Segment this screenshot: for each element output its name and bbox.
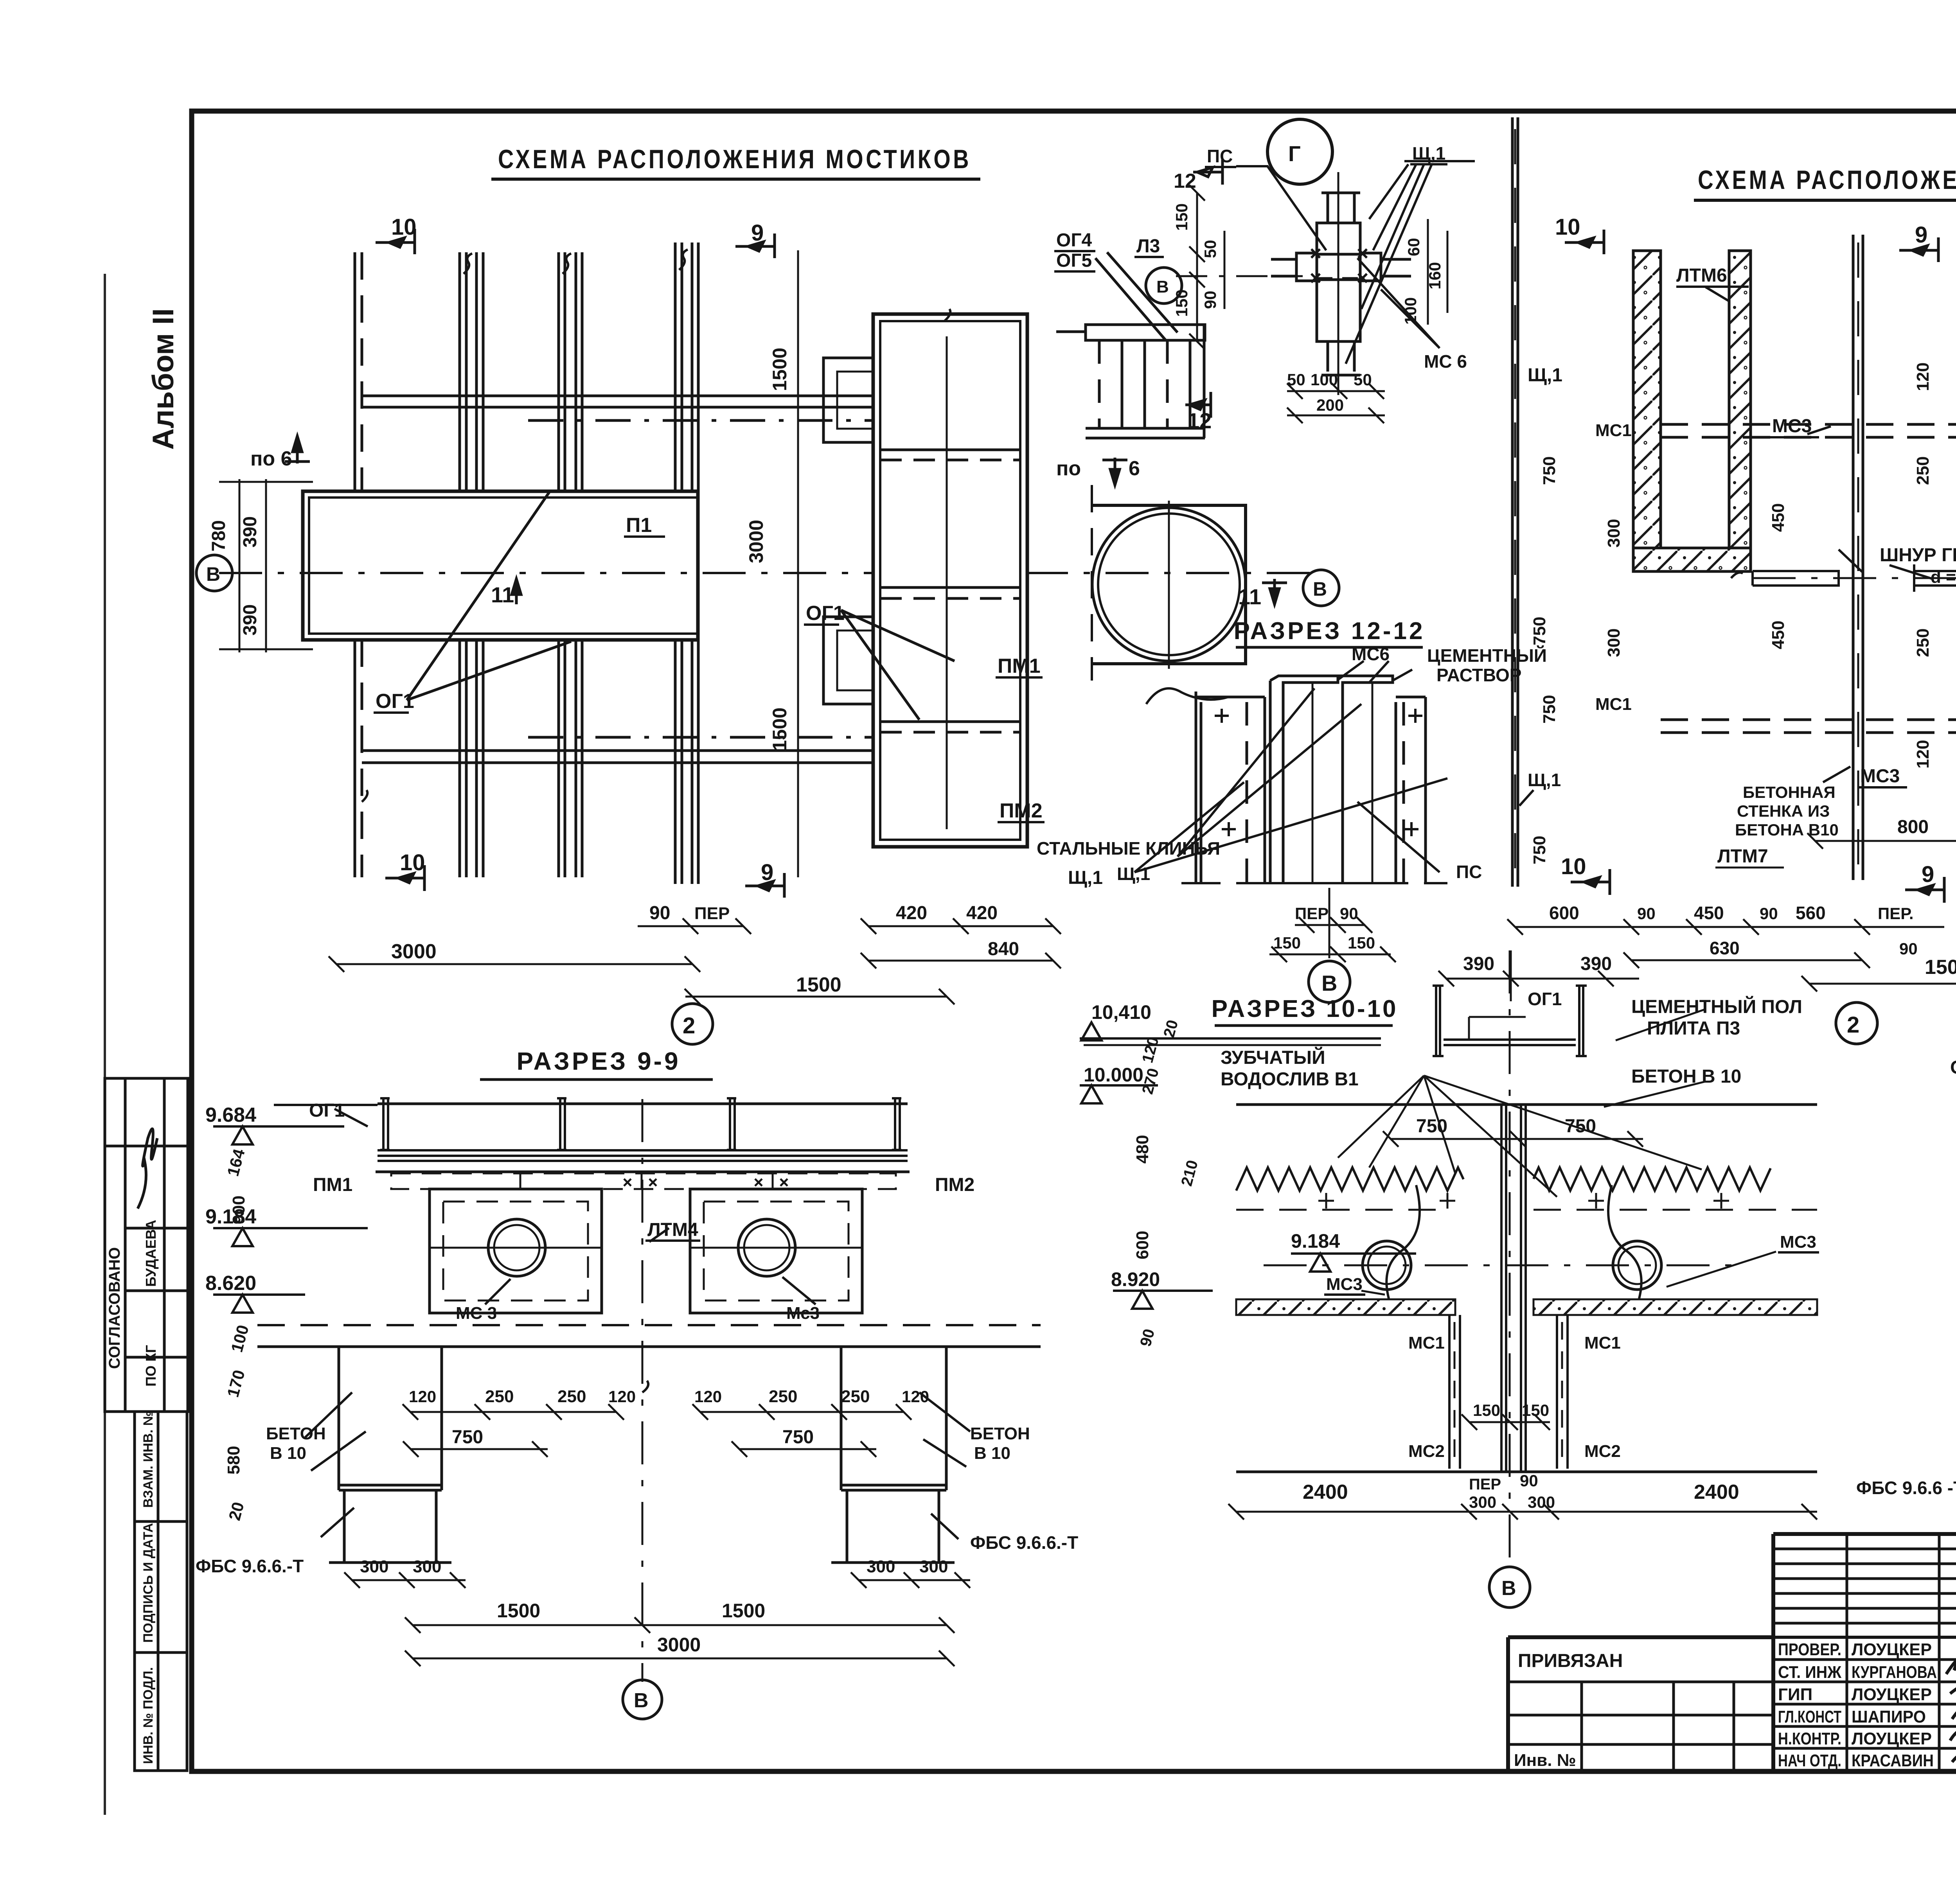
svg-text:ПМ2: ПМ2 — [1000, 799, 1043, 822]
svg-text:ФБС 9.6.6.-Т: ФБС 9.6.6.-Т — [196, 1556, 304, 1576]
svg-text:3000: 3000 — [391, 940, 437, 963]
svg-text:1500: 1500 — [769, 708, 791, 751]
svg-text:РАЗРЕЗ 12-12: РАЗРЕЗ 12-12 — [1234, 618, 1425, 645]
svg-text:2: 2 — [1847, 1012, 1859, 1038]
svg-text:120: 120 — [608, 1387, 636, 1406]
svg-text:ПЕР: ПЕР — [1295, 904, 1329, 923]
svg-text:300: 300 — [1604, 629, 1623, 657]
svg-text:450: 450 — [1694, 903, 1724, 923]
svg-text:90: 90 — [649, 903, 670, 923]
svg-text:ПЕР: ПЕР — [694, 904, 730, 923]
svg-text:3000: 3000 — [657, 1634, 701, 1656]
svg-text:150: 150 — [1473, 1401, 1500, 1419]
svg-text:630: 630 — [1710, 938, 1740, 958]
svg-text:ШНУР ГЕРНИТА: ШНУР ГЕРНИТА — [1880, 545, 1956, 566]
svg-text:10: 10 — [1555, 214, 1580, 240]
svg-text:390: 390 — [1463, 954, 1494, 974]
svg-text:Щ,1: Щ,1 — [1528, 365, 1562, 386]
svg-text:160: 160 — [1426, 262, 1444, 289]
svg-text:НАЧ ОТД.: НАЧ ОТД. — [1778, 1751, 1841, 1770]
svg-text:3000: 3000 — [745, 520, 767, 563]
svg-text:ФБС 9.6.6.-Т: ФБС 9.6.6.-Т — [970, 1532, 1078, 1553]
svg-text:90: 90 — [1637, 904, 1656, 923]
svg-text:БЕТОНА В10: БЕТОНА В10 — [1735, 821, 1839, 839]
svg-text:250: 250 — [1913, 629, 1933, 657]
svg-text:300: 300 — [867, 1557, 895, 1576]
svg-text:120: 120 — [902, 1387, 929, 1406]
svg-text:750: 750 — [1416, 1116, 1447, 1137]
svg-text:150: 150 — [1172, 289, 1191, 317]
svg-text:2400: 2400 — [1303, 1481, 1348, 1503]
svg-text:ОГ1: ОГ1 — [376, 690, 414, 713]
svg-text:580: 580 — [224, 1446, 243, 1475]
svg-text:ЛОУЦКЕР: ЛОУЦКЕР — [1852, 1729, 1932, 1748]
svg-text:ШАПИРО: ШАПИРО — [1852, 1707, 1926, 1726]
svg-text:Н.КОНТР.: Н.КОНТР. — [1778, 1729, 1841, 1748]
svg-text:СТЕНКА ИЗ: СТЕНКА ИЗ — [1737, 802, 1830, 820]
svg-text:90: 90 — [1760, 904, 1778, 923]
svg-text:1500: 1500 — [1925, 956, 1956, 979]
svg-text:МС 3: МС 3 — [456, 1304, 497, 1323]
svg-text:по: по — [1056, 457, 1081, 480]
svg-text:300: 300 — [413, 1557, 441, 1576]
svg-text:МС6: МС6 — [1352, 644, 1390, 664]
svg-text:МС3: МС3 — [1860, 766, 1900, 787]
svg-text:9.184: 9.184 — [205, 1205, 256, 1228]
svg-text:ЛТМ4: ЛТМ4 — [647, 1220, 698, 1240]
svg-text:300: 300 — [360, 1557, 388, 1576]
svg-text:50: 50 — [1354, 370, 1372, 389]
svg-text:750: 750 — [1530, 836, 1549, 864]
svg-text:ПОДПИСЬ И ДАТА: ПОДПИСЬ И ДАТА — [141, 1523, 156, 1643]
svg-text:750: 750 — [1540, 456, 1559, 485]
svg-text:ВЗАМ. ИНВ. №: ВЗАМ. ИНВ. № — [141, 1411, 156, 1508]
svg-text:ПС: ПС — [1456, 862, 1482, 882]
svg-text:В: В — [1501, 1577, 1516, 1600]
svg-text:150: 150 — [1348, 934, 1375, 952]
svg-text:750: 750 — [452, 1427, 483, 1448]
svg-text:П1: П1 — [626, 514, 652, 537]
svg-text:120: 120 — [1913, 740, 1933, 769]
svg-text:800: 800 — [1897, 817, 1929, 837]
svg-text:600: 600 — [1549, 903, 1579, 923]
svg-text:МС 6: МС 6 — [1424, 351, 1467, 372]
svg-text:БЕТОН: БЕТОН — [970, 1424, 1030, 1443]
svg-text:по 6: по 6 — [250, 447, 292, 470]
svg-text:780: 780 — [209, 520, 229, 551]
svg-text:МС3: МС3 — [1772, 416, 1812, 436]
svg-text:ОГ5: ОГ5 — [1056, 250, 1092, 271]
svg-text:450: 450 — [1769, 621, 1788, 649]
svg-text:ПМ2: ПМ2 — [935, 1175, 974, 1195]
svg-text:150: 150 — [1522, 1401, 1549, 1419]
svg-text:10: 10 — [391, 214, 417, 240]
svg-text:Инв. №: Инв. № — [1514, 1751, 1576, 1770]
svg-text:ЦЕМЕНТНЫЙ ПОЛ: ЦЕМЕНТНЫЙ ПОЛ — [1631, 996, 1802, 1017]
svg-text:Мс3: Мс3 — [786, 1304, 820, 1323]
svg-text:РАЗРЕЗ 9-9: РАЗРЕЗ 9-9 — [516, 1047, 680, 1075]
svg-text:КУРГАНОВА: КУРГАНОВА — [1852, 1663, 1937, 1682]
svg-text:ФБС 9.6.6 -Т: ФБС 9.6.6 -Т — [1856, 1478, 1956, 1498]
svg-text:ПО КГ: ПО КГ — [143, 1345, 159, 1387]
svg-text:ПЕР.: ПЕР. — [1878, 904, 1914, 923]
svg-text:ЛОУЦКЕР: ЛОУЦКЕР — [1852, 1685, 1932, 1704]
svg-text:МС1: МС1 — [1584, 1333, 1621, 1353]
svg-text:БЕТОН В 10: БЕТОН В 10 — [1631, 1066, 1741, 1087]
svg-text:ОГ1: ОГ1 — [1528, 989, 1562, 1009]
svg-text:2: 2 — [683, 1013, 695, 1038]
svg-text:РАЗРЕЗ 10-10: РАЗРЕЗ 10-10 — [1212, 995, 1398, 1022]
svg-text:В: В — [1321, 971, 1337, 995]
svg-text:10,410: 10,410 — [1091, 1001, 1151, 1023]
svg-text:БУДАЕВА: БУДАЕВА — [143, 1220, 159, 1287]
svg-text:300: 300 — [919, 1557, 948, 1576]
svg-text:ЛОУЦКЕР: ЛОУЦКЕР — [1852, 1640, 1932, 1659]
svg-text:10: 10 — [1561, 854, 1586, 879]
svg-text:420: 420 — [896, 903, 927, 923]
svg-text:2400: 2400 — [1694, 1481, 1739, 1503]
svg-text:90: 90 — [1520, 1471, 1538, 1490]
svg-text:МС1: МС1 — [1595, 421, 1632, 440]
svg-text:9: 9 — [1922, 862, 1934, 887]
svg-text:Г: Г — [1288, 141, 1301, 166]
svg-text:В: В — [1156, 277, 1169, 296]
svg-text:Щ,1: Щ,1 — [1412, 143, 1445, 163]
svg-text:750: 750 — [1530, 617, 1549, 645]
svg-text:300: 300 — [1604, 519, 1623, 548]
svg-text:КРАСАВИН: КРАСАВИН — [1852, 1751, 1934, 1770]
svg-text:ВОДОСЛИВ В1: ВОДОСЛИВ В1 — [1221, 1069, 1359, 1090]
svg-text:50: 50 — [1287, 370, 1305, 389]
svg-text:120: 120 — [409, 1387, 436, 1406]
svg-text:390: 390 — [240, 516, 261, 548]
svg-text:750: 750 — [782, 1427, 814, 1448]
svg-text:СТ. ИНЖ: СТ. ИНЖ — [1778, 1663, 1841, 1682]
svg-text:300: 300 — [1469, 1493, 1496, 1511]
svg-text:9: 9 — [1915, 222, 1927, 248]
svg-text:560: 560 — [1796, 903, 1826, 923]
svg-text:ЛТМ7: ЛТМ7 — [1717, 846, 1768, 867]
svg-text:d = 40: d = 40 — [1931, 568, 1956, 587]
svg-text:750: 750 — [1565, 1116, 1596, 1137]
svg-text:150: 150 — [1172, 203, 1191, 231]
svg-text:150: 150 — [1273, 934, 1301, 952]
svg-text:МС2: МС2 — [1408, 1442, 1445, 1461]
svg-text:ПЛИТА П3: ПЛИТА П3 — [1647, 1018, 1740, 1039]
svg-text:250: 250 — [769, 1387, 797, 1406]
svg-text:90: 90 — [1340, 904, 1358, 923]
svg-text:8.920: 8.920 — [1111, 1268, 1160, 1290]
svg-text:ПРИВЯЗАН: ПРИВЯЗАН — [1518, 1651, 1623, 1671]
svg-text:11: 11 — [491, 582, 514, 607]
svg-text:В: В — [206, 563, 220, 585]
svg-text:В 10: В 10 — [270, 1444, 306, 1463]
svg-text:9: 9 — [761, 860, 773, 885]
svg-text:Альбом II: Альбом II — [147, 308, 180, 450]
svg-text:9.684: 9.684 — [205, 1104, 256, 1126]
svg-text:СХЕМА РАСПОЛОЖЕНИЯ ЛОТКОВ: СХЕМА РАСПОЛОЖЕНИЯ ЛОТКОВ — [1698, 165, 1956, 195]
svg-text:ЗУБЧАТЫЙ: ЗУБЧАТЫЙ — [1221, 1047, 1325, 1068]
svg-text:СТАЛЬНЫЕ КЛИНЬЯ: СТАЛЬНЫЕ КЛИНЬЯ — [1037, 838, 1220, 859]
svg-text:390: 390 — [1580, 954, 1612, 974]
svg-text:ОГ1: ОГ1 — [309, 1100, 345, 1121]
svg-text:390: 390 — [240, 604, 261, 636]
svg-text:МС2: МС2 — [1584, 1442, 1621, 1461]
svg-text:ОГ1: ОГ1 — [806, 602, 845, 625]
svg-text:10.000: 10.000 — [1084, 1064, 1143, 1086]
svg-text:Щ,1: Щ,1 — [1068, 868, 1103, 888]
svg-text:12: 12 — [1187, 408, 1212, 433]
svg-text:10: 10 — [400, 850, 425, 875]
svg-text:В: В — [1313, 578, 1327, 600]
svg-text:9.184: 9.184 — [1291, 1230, 1340, 1252]
svg-text:90: 90 — [1899, 939, 1918, 958]
svg-text:100: 100 — [1311, 370, 1338, 389]
svg-text:6: 6 — [1129, 457, 1140, 480]
svg-text:1500: 1500 — [769, 348, 791, 391]
svg-text:120: 120 — [1913, 363, 1933, 391]
svg-text:БЕТОННАЯ: БЕТОННАЯ — [1743, 783, 1836, 801]
svg-text:ОГ1: ОГ1 — [1950, 1057, 1956, 1078]
svg-text:ИНВ. № ПОДЛ.: ИНВ. № ПОДЛ. — [141, 1667, 156, 1764]
svg-text:ГИП: ГИП — [1778, 1685, 1812, 1704]
svg-text:1500: 1500 — [497, 1600, 540, 1622]
svg-text:ПЕР: ПЕР — [1469, 1476, 1501, 1493]
svg-text:840: 840 — [988, 939, 1019, 959]
svg-text:МС3: МС3 — [1780, 1232, 1816, 1252]
svg-text:50: 50 — [1201, 240, 1219, 258]
svg-text:480: 480 — [1133, 1135, 1152, 1164]
svg-text:Щ,1: Щ,1 — [1117, 864, 1150, 884]
svg-text:В 10: В 10 — [974, 1444, 1010, 1463]
svg-text:90: 90 — [1201, 291, 1219, 309]
svg-text:250: 250 — [841, 1387, 870, 1406]
svg-text:250: 250 — [485, 1387, 514, 1406]
svg-text:8.620: 8.620 — [205, 1272, 256, 1295]
svg-text:МС1: МС1 — [1408, 1333, 1445, 1353]
svg-text:200: 200 — [1316, 396, 1344, 414]
svg-text:СХЕМА РАСПОЛОЖЕНИЯ МОСТИКОВ: СХЕМА РАСПОЛОЖЕНИЯ МОСТИКОВ — [498, 144, 971, 174]
svg-text:250: 250 — [1913, 456, 1933, 485]
svg-text:ПМ1: ПМ1 — [313, 1175, 352, 1195]
svg-text:ПМ1: ПМ1 — [998, 655, 1041, 677]
svg-text:100: 100 — [1401, 297, 1420, 325]
svg-text:БЕТОН: БЕТОН — [266, 1424, 326, 1443]
svg-text:450: 450 — [1769, 503, 1788, 532]
svg-text:В: В — [634, 1689, 649, 1712]
svg-text:СОГЛАСОВАНО: СОГЛАСОВАНО — [106, 1247, 123, 1369]
svg-text:60: 60 — [1404, 238, 1423, 256]
svg-text:600: 600 — [1133, 1231, 1152, 1259]
svg-text:ПРОВЕР.: ПРОВЕР. — [1778, 1640, 1841, 1659]
svg-text:300: 300 — [1528, 1493, 1555, 1511]
svg-text:Л3: Л3 — [1136, 236, 1160, 257]
svg-text:250: 250 — [557, 1387, 586, 1406]
svg-text:МС1: МС1 — [1595, 695, 1632, 714]
svg-text:ПС: ПС — [1207, 146, 1233, 166]
svg-text:ЛТМ6: ЛТМ6 — [1676, 265, 1727, 286]
svg-text:750: 750 — [1540, 695, 1559, 724]
svg-text:120: 120 — [694, 1387, 722, 1406]
svg-text:Щ,1: Щ,1 — [1528, 770, 1561, 790]
svg-text:1500: 1500 — [722, 1600, 765, 1622]
svg-text:ОГ4: ОГ4 — [1056, 230, 1092, 251]
svg-text:ЦЕМЕНТНЫЙ: ЦЕМЕНТНЫЙ — [1427, 645, 1547, 666]
svg-text:11: 11 — [1238, 584, 1261, 609]
svg-text:12: 12 — [1174, 170, 1196, 192]
svg-text:9: 9 — [751, 220, 764, 246]
svg-text:МС3: МС3 — [1326, 1275, 1363, 1294]
svg-text:ГЛ.КОНСТ: ГЛ.КОНСТ — [1778, 1707, 1841, 1726]
svg-text:420: 420 — [966, 903, 998, 923]
svg-text:РАСТВОР: РАСТВОР — [1436, 665, 1521, 685]
svg-text:1500: 1500 — [796, 974, 841, 996]
